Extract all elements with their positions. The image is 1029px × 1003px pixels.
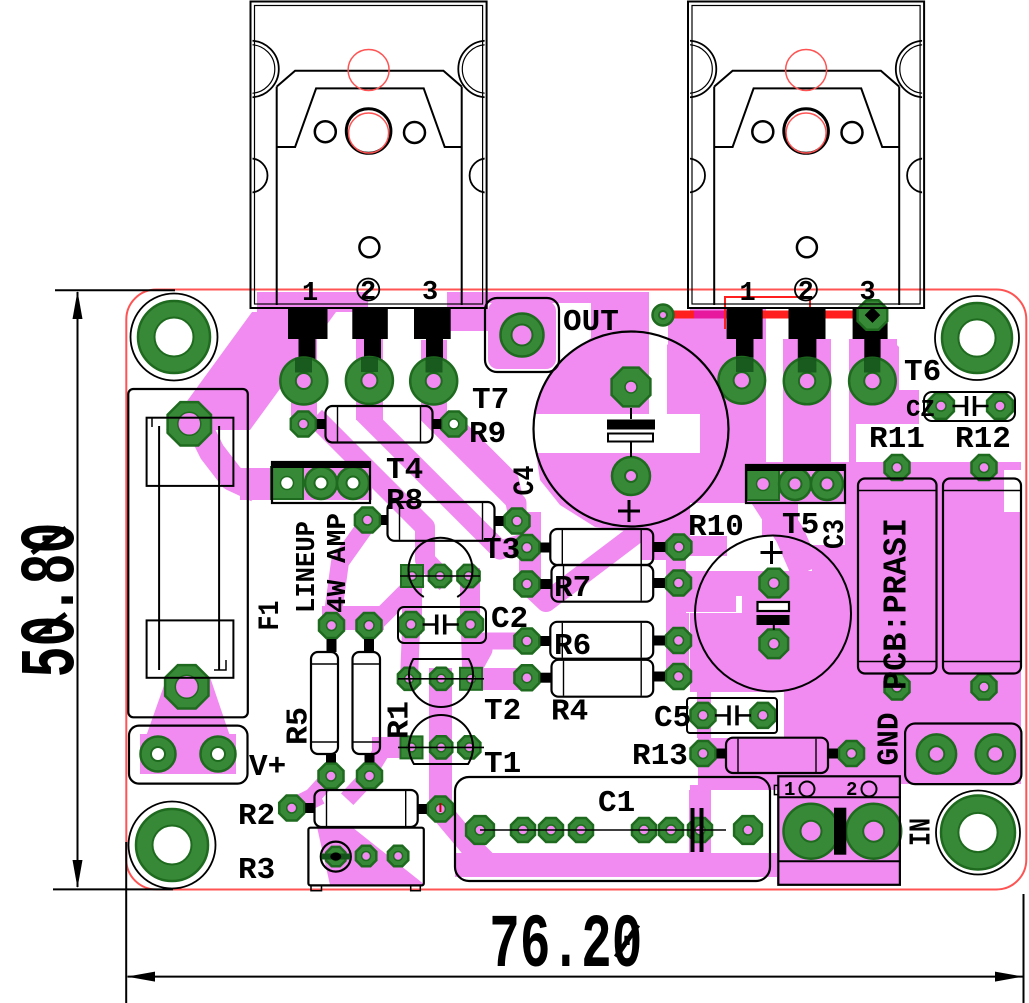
copper trace T6 pin1 column — [718, 339, 766, 500]
copper trace C2 left to T2 left pad — [409, 630, 411, 679]
svg-text:R9: R9 — [469, 417, 506, 452]
R6 pad left — [514, 629, 539, 654]
copper trace T2 square up to R6 left — [473, 641, 527, 670]
fuse F1 outline — [128, 389, 248, 717]
copper column C5 over — [697, 692, 711, 738]
mounting hole bottom-right — [936, 791, 1020, 875]
copper fill terminal block — [779, 778, 898, 882]
svg-text:OUT: OUT — [563, 305, 619, 340]
copper trace diag pin3 to R8 right pad — [434, 420, 517, 521]
capacitor CZ outline — [924, 392, 1015, 421]
T6 pad 3 — [849, 358, 896, 405]
T7 pad 2 — [346, 357, 393, 404]
svg-text:C1: C1 — [598, 786, 635, 821]
svg-text:R2: R2 — [238, 799, 275, 834]
copper vertical C5 column — [699, 612, 711, 790]
white patch R13 label — [640, 738, 698, 785]
copper trace R13 right to GND — [828, 744, 940, 764]
resistor R13 body — [717, 749, 727, 759]
V+ pad 1 — [141, 737, 176, 772]
copper trace T6 pin3 column — [849, 339, 897, 470]
magenta trace overlap — [694, 311, 728, 319]
dimension extension bottom-left-v — [125, 842, 127, 1003]
R4 pad right — [666, 664, 691, 689]
copper fill V+ connector — [140, 734, 236, 774]
white patch around C5 — [680, 692, 784, 738]
CZ pad right — [987, 393, 1013, 419]
resistor R10 body — [540, 543, 550, 553]
copper trace R8 left pad down to R5 band — [334, 524, 367, 606]
R9 pad left — [291, 412, 316, 437]
copper trace R5 bottom to R2 — [312, 776, 331, 797]
white notch right edge — [1004, 470, 1021, 512]
transistor package T6 heatsink — [688, 2, 924, 309]
svg-text:R3: R3 — [238, 853, 275, 888]
copper band R6 area over — [666, 593, 736, 612]
svg-text:V+: V+ — [249, 750, 286, 785]
T1 pad 3 — [458, 736, 480, 758]
R8 pad right — [505, 509, 530, 534]
R3 pad 2 — [356, 846, 376, 866]
white channel in C4 — [533, 414, 700, 453]
T2 pad 1 — [398, 668, 420, 690]
copper trace C2 right to T2 square pad — [470, 630, 471, 670]
copper trace T5 to C3 — [766, 498, 800, 558]
svg-text:1: 1 — [740, 279, 756, 309]
copper C1 cap column — [689, 790, 711, 853]
T4 connector pad 1 — [271, 467, 303, 499]
svg-text:R4: R4 — [551, 695, 588, 730]
copper pour band above T7 pins — [257, 292, 368, 312]
copper trace pin2 T7 column — [356, 312, 383, 420]
R13 pad right — [839, 741, 864, 766]
copper trace R9 right pad diag — [454, 424, 517, 515]
copper pour C4 lower mass — [536, 453, 700, 533]
copper trace band to T3 area — [380, 586, 412, 618]
V+ pad 2 — [201, 737, 236, 772]
svg-text:R6: R6 — [554, 629, 591, 664]
white margin right edge top — [1013, 388, 1021, 430]
T6 pad 2 — [784, 358, 831, 405]
red thin trace outline T6 — [725, 297, 810, 329]
T3 pad 1 square — [401, 565, 423, 587]
svg-text:R12: R12 — [955, 422, 1011, 457]
mounting hole bottom-left — [129, 802, 216, 889]
C4 pad top — [612, 368, 651, 407]
GND pad 1 — [917, 734, 956, 773]
dimension line 50.80 — [77, 292, 79, 887]
transistor package T7 heatsink — [251, 2, 487, 309]
R10 pad left — [514, 535, 539, 560]
svg-text:2: 2 — [360, 278, 376, 308]
svg-text:3: 3 — [860, 278, 876, 308]
via near OUT — [653, 305, 674, 326]
R13 pad left — [691, 741, 716, 766]
T1 pad 1 square — [401, 736, 423, 758]
white patch CZ area — [919, 386, 1021, 426]
board outline — [126, 290, 1026, 890]
IN terminal pad 1 — [784, 804, 839, 859]
C2 pad right — [458, 612, 483, 637]
svg-text:C5: C5 — [654, 701, 691, 736]
svg-text:2: 2 — [798, 278, 814, 308]
svg-text:T4: T4 — [386, 453, 423, 488]
copper trace R1 bottom diag — [353, 776, 369, 793]
white patch C3 top — [727, 536, 812, 571]
R12 pad top — [972, 455, 997, 480]
capacitor C2 outline — [398, 607, 486, 643]
capacitor C3 outline — [695, 536, 851, 692]
R6 pad right — [666, 628, 691, 653]
copper pour right of channel — [667, 330, 717, 414]
trimmer R3 outline — [308, 828, 423, 886]
svg-text:R11: R11 — [869, 422, 925, 457]
T7 pad 3 — [410, 358, 457, 405]
capacitor C5 outline — [687, 698, 777, 733]
resistor R8 body — [381, 515, 388, 525]
dimension extension bottom-right-v — [1023, 894, 1025, 1003]
copper trace F1 bottom pad blob — [144, 677, 232, 742]
transistor T1 outline — [409, 715, 473, 764]
copper band above R5 R1 — [322, 606, 384, 630]
svg-text:LINEUP: LINEUP — [293, 521, 323, 613]
R11 pad top — [885, 455, 910, 480]
R2 pad left — [279, 796, 304, 821]
copper band T4 connector — [240, 468, 372, 500]
copper pour CZ region — [856, 345, 1021, 462]
transistor T3 outline — [408, 538, 472, 597]
T6 pin3 via pad — [858, 300, 888, 330]
copper trace T3 pads to C2 — [402, 578, 422, 624]
C3 pad bottom — [760, 630, 789, 659]
white left of T5 trace — [690, 503, 762, 536]
R5 pad top — [319, 613, 344, 638]
copper trace C4 bottom to C3 area — [641, 533, 700, 560]
resistor R11 body — [858, 479, 937, 674]
copper pour top strip at OUT — [447, 292, 649, 303]
svg-text:R7: R7 — [554, 571, 591, 606]
white patch T6 label — [899, 345, 940, 390]
copper trace T1 square left band — [372, 737, 413, 758]
connector GND outline — [905, 724, 1021, 785]
R8 pad left — [355, 508, 380, 533]
svg-text:T1: T1 — [484, 747, 521, 782]
C4 pad bottom — [612, 457, 650, 495]
T1 pad 2 — [430, 736, 452, 758]
C2 pad left — [399, 612, 424, 637]
copper trace pin1 T7 column — [291, 312, 317, 424]
resistor R4 body — [540, 673, 551, 683]
capacitor C4 outline — [534, 332, 729, 527]
T6 pin3 black pad — [853, 308, 888, 339]
T5 connector pad 1 — [747, 468, 779, 500]
copper fill OUT pad square — [488, 301, 556, 369]
svg-text:CZ: CZ — [906, 397, 935, 424]
copper band below — [666, 593, 736, 612]
copper pour right side — [690, 462, 1021, 884]
capacitor C1 outline — [455, 777, 770, 881]
copper band R7 to C3 top over — [666, 571, 775, 596]
copper trace F1 pad to T4 connector — [196, 420, 245, 484]
svg-text:2: 2 — [846, 779, 857, 801]
svg-text:76.20: 76.20 — [489, 903, 642, 989]
copper trace R2 right pad to C1 — [440, 810, 480, 856]
copper fill R13 body — [726, 738, 828, 773]
R11 pad bottom — [885, 675, 910, 700]
dimension text 50.80 — [9, 523, 97, 678]
svg-text:PCB:PRASI: PCB:PRASI — [879, 518, 916, 690]
R2 pad right — [428, 797, 453, 822]
R10 pad right — [666, 535, 691, 560]
T6 pin1 black pad — [727, 308, 763, 339]
copper trace T6 pin2 column — [783, 339, 831, 505]
mounting hole top-right — [935, 296, 1019, 380]
svg-text:R5: R5 — [282, 707, 317, 745]
OUT pad — [501, 314, 544, 357]
R1 pad top — [357, 613, 382, 638]
transistor T5 outline — [746, 465, 845, 503]
R7 pad left — [514, 572, 539, 597]
pad OUT silk square — [485, 298, 559, 372]
white wedge GND corner — [900, 784, 1029, 889]
fuse F1 clips — [147, 418, 234, 486]
terminal block IN outline — [778, 776, 900, 885]
resistor R2 body — [305, 803, 314, 813]
mounting hole top-left — [131, 294, 218, 381]
T7 pin1 black pad — [288, 308, 328, 339]
R3 pad 1 — [326, 847, 345, 866]
svg-text:4W AMP: 4W AMP — [324, 513, 354, 613]
svg-text:T2: T2 — [484, 694, 521, 729]
copper C1 bottom band — [455, 853, 777, 877]
R7 pad right — [666, 571, 691, 596]
resistor R5 body — [327, 639, 337, 652]
R5 pad bottom — [319, 764, 344, 789]
svg-text:R13: R13 — [632, 739, 688, 774]
copper trace T3 right pad to C2 right — [460, 578, 480, 624]
white band R11 R12 labels — [856, 424, 1021, 462]
copper fill T5 connector — [746, 467, 843, 501]
R12 pad bottom — [972, 675, 997, 700]
red trace bottom layer T6 — [660, 311, 872, 319]
svg-text:F1: F1 — [254, 601, 288, 631]
svg-text:C4: C4 — [509, 466, 543, 496]
copper trace diag R9 left to R8 — [322, 424, 440, 576]
svg-text:T5: T5 — [782, 508, 819, 543]
white right of T5 trace — [798, 503, 845, 545]
svg-text:T7: T7 — [472, 383, 509, 418]
T3 pad 3 — [457, 565, 479, 587]
copper trace diag pin2 to R8 right — [370, 420, 517, 550]
copper trace T5 to C3 over — [766, 498, 800, 558]
svg-text:R1: R1 — [383, 701, 418, 739]
F1 top pad — [168, 402, 211, 445]
resistor R1 body — [364, 639, 374, 652]
dimension extension top-left — [55, 289, 175, 291]
T4 connector pad 2 — [305, 467, 337, 499]
T7 pin3 black pad — [414, 308, 451, 339]
svg-text:50.80: 50.80 — [9, 523, 97, 678]
copper trace T2-T1 vertical band — [429, 668, 452, 814]
resistor R7 body — [540, 579, 551, 589]
copper pour C4 upper mass — [535, 303, 649, 414]
copper trace T3 column pads — [519, 512, 541, 596]
T4 connector pad 3 — [337, 467, 369, 499]
copper band R7 to C3 top — [666, 571, 775, 596]
transistor T4 outline — [272, 462, 370, 503]
copper trace R13 left pad — [698, 744, 726, 764]
F1 bottom pad — [165, 665, 208, 708]
svg-text:1: 1 — [784, 779, 795, 801]
copper C3 circle fill — [696, 537, 850, 691]
T5 connector pad 3 — [811, 468, 843, 500]
svg-text:T3: T3 — [483, 533, 520, 568]
CZ pad left — [928, 393, 954, 419]
copper trace T2 square to R4 left — [460, 668, 527, 690]
copper pour diag to F1 pad — [166, 312, 336, 430]
T7 pad 1 — [280, 358, 327, 405]
T2 pad 2 — [430, 668, 452, 690]
white channel right of OUT — [649, 292, 667, 410]
resistor R9 body — [317, 419, 326, 429]
transistor T2 outline — [409, 659, 473, 707]
svg-text:T6: T6 — [904, 355, 941, 390]
T7 pin2 black pad — [352, 308, 388, 339]
dimension extension bottom-left-h — [53, 888, 173, 890]
dimension line 76.20 — [128, 976, 1023, 978]
svg-text:3: 3 — [422, 278, 438, 308]
IN terminal pad 2 — [846, 804, 901, 859]
R9 pad right — [441, 412, 466, 437]
svg-text:C2: C2 — [491, 602, 528, 637]
T5 connector pad 2 — [779, 468, 811, 500]
capacitor C3 polarity — [758, 602, 790, 611]
T6 pad 1 — [719, 357, 766, 404]
T3 pad 2 — [429, 565, 451, 587]
copper trace R2 left pad blob — [293, 799, 311, 808]
GND pad 2 — [976, 734, 1015, 773]
R3 pad 3 — [388, 846, 408, 866]
R1 pad bottom — [357, 764, 382, 789]
copper trace T1 band diag to R1 pad — [369, 757, 378, 772]
svg-text:C3: C3 — [819, 519, 853, 549]
C1 pads row — [466, 816, 494, 844]
copper trace diag under R10 — [527, 506, 671, 602]
copper blob R3 area — [317, 827, 425, 885]
capacitor C4 polarity — [630, 408, 632, 419]
resistor R6 body — [540, 636, 550, 646]
connector V+ outline — [129, 726, 248, 784]
R4 pad left — [514, 665, 539, 690]
C3 pad top — [760, 569, 789, 598]
T6 pin2 black pad — [789, 308, 826, 339]
resistor R12 body — [943, 479, 1021, 674]
copper trace pin3 T7 column — [421, 340, 447, 420]
svg-text:GND: GND — [873, 713, 908, 766]
C5 pad left — [691, 703, 716, 728]
copper pour under T6 pin1 top — [668, 318, 766, 345]
svg-text:1: 1 — [302, 279, 318, 309]
svg-text:R10: R10 — [688, 510, 744, 545]
T2 pad 3 square — [460, 668, 482, 690]
C5 pad right — [750, 703, 775, 728]
copper trace right vertical band R10-R4 — [666, 520, 689, 681]
svg-text:IN: IN — [905, 818, 940, 846]
svg-text:R8: R8 — [386, 484, 423, 519]
white patch C3 left — [686, 556, 742, 613]
